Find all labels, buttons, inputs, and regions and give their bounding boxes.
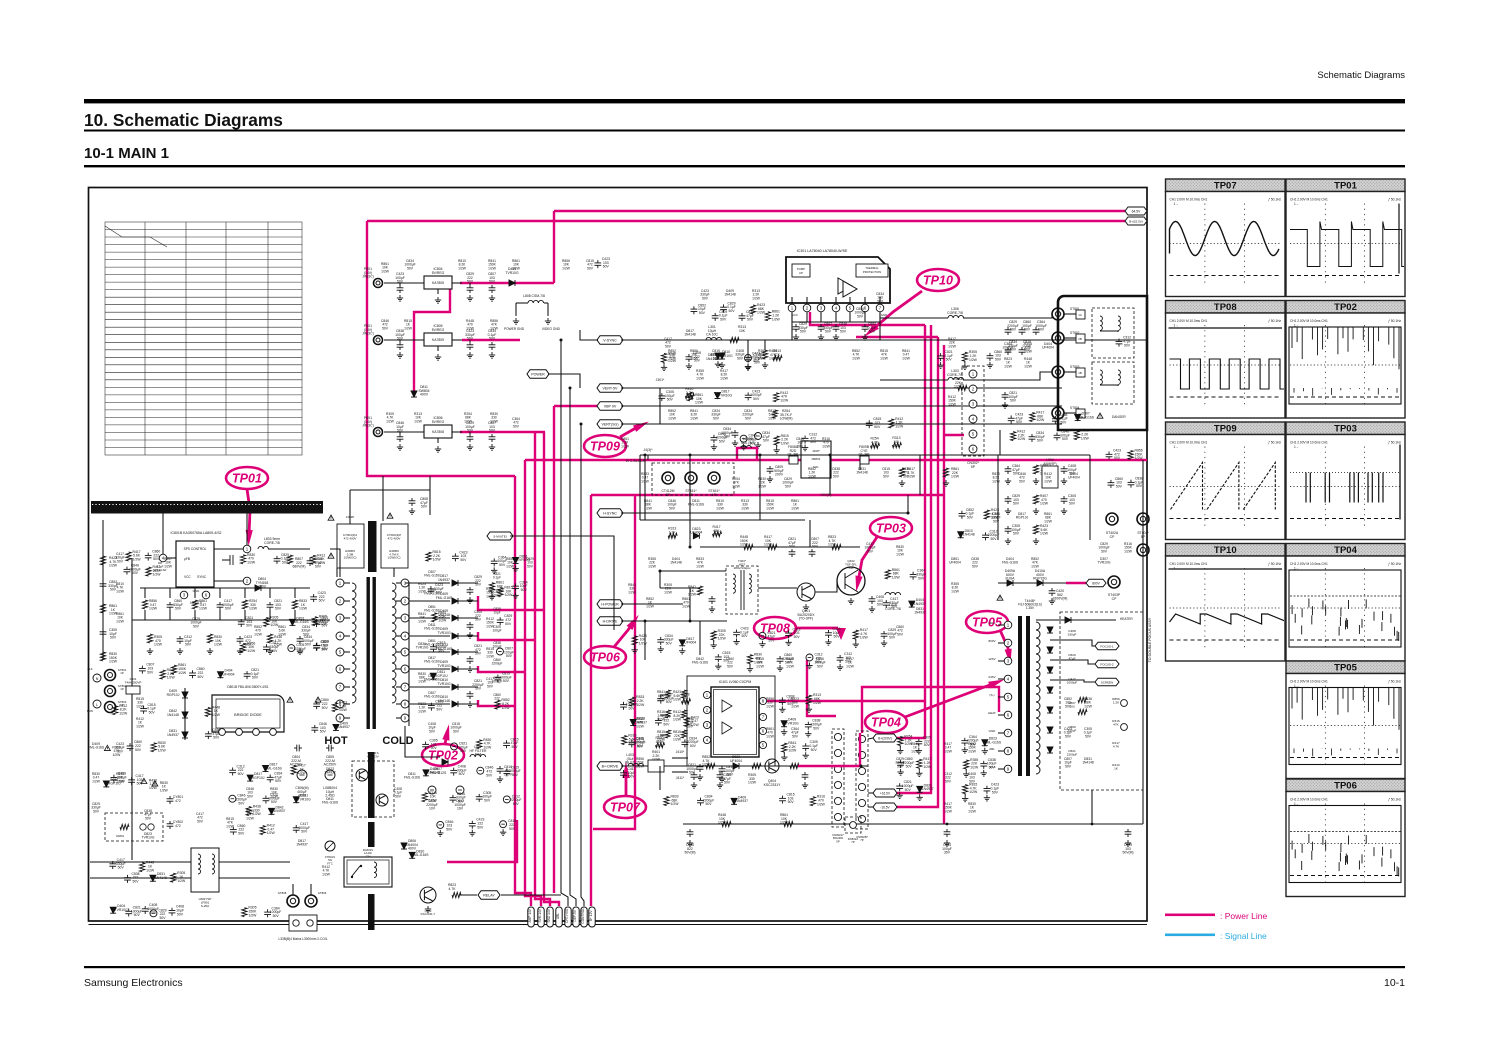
svg-text:1/2W: 1/2W xyxy=(648,564,657,568)
label xyxy=(914,598,926,606)
resistor part xyxy=(332,703,337,712)
wire drain xyxy=(246,510,248,545)
ground xyxy=(759,641,765,647)
label xyxy=(1008,340,1018,352)
svg-text:1/2W: 1/2W xyxy=(690,356,699,360)
label xyxy=(421,909,436,916)
label xyxy=(466,272,474,284)
svg-text:TP09: TP09 xyxy=(1214,424,1237,435)
resistor part xyxy=(885,570,890,579)
reference label xyxy=(1098,542,1109,553)
T801 primary pin 1 xyxy=(336,579,344,587)
label xyxy=(339,701,348,713)
svg-text:1/2W: 1/2W xyxy=(846,664,855,668)
label xyxy=(438,574,450,582)
reference label xyxy=(968,742,977,753)
label xyxy=(887,628,897,640)
svg-text:50V: 50V xyxy=(185,643,192,647)
node H-DRIVE xyxy=(597,617,623,626)
svg-text:1N4148: 1N4148 xyxy=(963,533,975,537)
capacitor part xyxy=(263,796,270,804)
junction xyxy=(829,454,832,457)
svg-text:50V: 50V xyxy=(669,506,676,510)
capacitor input filter xyxy=(397,434,404,442)
reference label xyxy=(758,477,767,488)
svg-text:1/2W: 1/2W xyxy=(664,590,673,594)
svg-text:50V: 50V xyxy=(745,416,752,420)
CN802A pin xyxy=(834,733,841,740)
label xyxy=(406,839,418,851)
svg-text:50V: 50V xyxy=(713,416,720,420)
svg-text:50V: 50V xyxy=(889,636,896,640)
wire secondary out xyxy=(458,686,478,688)
svg-text:D801B FBU-806 D800Y-4/S1: D801B FBU-806 D800Y-4/S1 xyxy=(227,685,269,689)
wire xyxy=(663,362,665,364)
resistor part xyxy=(685,394,694,399)
label C-BLOCK xyxy=(626,459,646,463)
svg-text:103: 103 xyxy=(1069,705,1074,709)
ground xyxy=(963,771,969,777)
svg-text:FOCUS-1: FOCUS-1 xyxy=(1100,644,1113,648)
label xyxy=(636,695,645,707)
block thermal protection xyxy=(856,264,888,277)
svg-text:50V: 50V xyxy=(833,474,840,478)
capacitor snubber row2 xyxy=(297,636,304,644)
svg-text:2200µF: 2200µF xyxy=(1067,753,1078,757)
svg-text:16V: 16V xyxy=(457,807,464,811)
diode part xyxy=(423,770,429,776)
svg-text:1/2W: 1/2W xyxy=(791,506,800,510)
power trunk 9 +16.5V xyxy=(897,325,931,793)
svg-text:50V: 50V xyxy=(713,356,720,360)
svg-text:1/2W: 1/2W xyxy=(880,356,889,360)
svg-text:1N4148: 1N4148 xyxy=(724,293,736,297)
ground xyxy=(984,795,990,801)
label xyxy=(740,627,749,639)
capacitor part xyxy=(733,630,740,638)
label focus assy xyxy=(1148,617,1152,662)
label xyxy=(746,310,754,322)
label flyback part xyxy=(1067,677,1078,685)
svg-text:B+-DRIVE: B+-DRIVE xyxy=(602,764,619,768)
reference label xyxy=(684,329,696,337)
svg-text:1P: 1P xyxy=(120,687,124,691)
wire flyback pin xyxy=(998,624,1004,626)
label xyxy=(727,301,736,313)
warning mark xyxy=(141,778,147,783)
label xyxy=(256,577,269,589)
label xyxy=(488,329,497,341)
svg-text:DEF-5V: DEF-5V xyxy=(573,909,577,921)
reference label xyxy=(458,259,467,270)
reference label xyxy=(948,395,957,406)
svg-text:1/2W: 1/2W xyxy=(136,724,145,728)
svg-text:1/2W: 1/2W xyxy=(652,758,661,762)
ground xyxy=(467,295,473,301)
junction xyxy=(1091,823,1094,826)
label xyxy=(270,616,279,628)
svg-text:ƒ 50.1Hz: ƒ 50.1Hz xyxy=(1388,680,1401,684)
svg-text:50V: 50V xyxy=(1136,484,1143,488)
wire reg output xyxy=(452,339,462,341)
svg-text:50V: 50V xyxy=(275,607,282,611)
warning mark xyxy=(1097,413,1103,418)
svg-text:1/2W(GC): 1/2W(GC) xyxy=(387,556,400,560)
power wire secondary out 1 xyxy=(478,596,544,610)
junction xyxy=(569,387,572,390)
schematic border frame xyxy=(89,188,1148,925)
enclosure varistor xyxy=(105,813,163,841)
inductor L306 xyxy=(948,315,964,318)
svg-text:50V: 50V xyxy=(489,280,496,284)
warning mark xyxy=(387,513,393,518)
label xyxy=(828,535,837,547)
label xyxy=(430,739,438,751)
inductor L809B xyxy=(741,445,751,448)
capacitor yoke xyxy=(1019,347,1026,355)
reference label xyxy=(711,409,720,420)
wire flyback pin xyxy=(998,642,1004,644)
wire xyxy=(399,340,401,342)
diode part xyxy=(150,875,156,881)
resistor part xyxy=(964,760,969,769)
reference label xyxy=(254,625,263,636)
diode part xyxy=(731,798,737,804)
label HOT xyxy=(324,735,348,747)
svg-text:1/2W: 1/2W xyxy=(109,564,118,568)
wire pin xyxy=(864,297,866,304)
label xyxy=(146,663,154,675)
svg-text:50V: 50V xyxy=(487,684,494,688)
svg-text:KSC2331-Y: KSC2331-Y xyxy=(421,912,436,916)
amplifier triangle IC301 xyxy=(838,278,857,297)
resistor array part xyxy=(1033,495,1038,504)
wire VERT(SG) bus xyxy=(621,423,1062,425)
CRT block terminal 3 xyxy=(708,472,720,484)
reference label xyxy=(1024,357,1033,368)
svg-text:ƒ 50.1Hz: ƒ 50.1Hz xyxy=(1388,198,1401,202)
reference label xyxy=(876,292,884,303)
test point TP01 xyxy=(226,467,268,489)
resistor part xyxy=(810,797,815,806)
label xyxy=(688,585,697,597)
heading rule xyxy=(84,130,1405,132)
label xyxy=(318,591,326,603)
wire xyxy=(713,640,715,642)
label xyxy=(656,378,665,382)
T801 primary pin 9 xyxy=(336,714,344,722)
reference label xyxy=(136,717,145,728)
label xyxy=(118,668,127,675)
power wire secondary out 3 xyxy=(478,666,525,672)
T801 secondary winding xyxy=(392,583,396,703)
choke core bar xyxy=(368,521,377,572)
svg-text:50V: 50V xyxy=(897,764,904,768)
svg-text:CA 10C: CA 10C xyxy=(706,333,718,337)
resistor R421 xyxy=(697,586,702,595)
wire signal trunk 1 xyxy=(561,340,568,906)
ground xyxy=(469,830,475,836)
svg-text:50V: 50V xyxy=(891,605,898,609)
wire cluster bus xyxy=(998,454,1090,456)
svg-text:FML-G16S: FML-G16S xyxy=(404,776,421,780)
svg-text:50V: 50V xyxy=(813,726,820,730)
reference label xyxy=(562,259,571,270)
svg-text:MJ4: MJ4 xyxy=(475,753,482,757)
svg-text:50V: 50V xyxy=(857,314,864,318)
junction xyxy=(946,823,949,826)
wire flyback pin xyxy=(998,750,1004,752)
wire pill feed xyxy=(580,330,598,340)
flyback rectifier diode xyxy=(1047,667,1053,673)
wire xyxy=(749,664,751,666)
ground xyxy=(899,480,905,486)
svg-text:1/2W: 1/2W xyxy=(741,506,750,510)
page header text xyxy=(1317,70,1405,81)
svg-text:10V: 10V xyxy=(429,807,436,811)
resistor part xyxy=(962,352,967,361)
diode D806 xyxy=(401,843,407,849)
wire xyxy=(515,303,517,316)
ground xyxy=(467,444,473,450)
label flyback resistor xyxy=(1112,763,1120,771)
svg-text:12SV: 12SV xyxy=(988,657,995,661)
label xyxy=(245,616,253,628)
wire secondary row xyxy=(409,703,450,705)
svg-text:J409*: J409* xyxy=(812,449,821,453)
label xyxy=(214,635,223,647)
label xyxy=(738,325,746,333)
label xyxy=(133,550,142,562)
label xyxy=(970,758,979,770)
svg-text:50V: 50V xyxy=(877,603,884,607)
label xyxy=(670,795,679,807)
diode D409A xyxy=(1007,580,1013,586)
inductor L301 xyxy=(706,337,722,340)
pin block 2 xyxy=(1076,334,1085,343)
capacitor part xyxy=(124,875,131,883)
capacitor part xyxy=(681,739,688,747)
bridge pin xyxy=(236,729,243,736)
bridge rectifier D801 xyxy=(212,695,284,732)
svg-text:1/2W: 1/2W xyxy=(911,749,920,753)
svg-text:IC401 LV060 C0CPM: IC401 LV060 C0CPM xyxy=(719,680,752,684)
test point TP03 xyxy=(870,517,912,539)
label xyxy=(437,627,451,635)
wire T801 secondary lead xyxy=(396,686,401,688)
svg-text:TP07: TP07 xyxy=(610,800,641,814)
label xyxy=(362,324,374,336)
reference label xyxy=(301,625,310,636)
svg-text:800V: 800V xyxy=(988,639,995,643)
node FOCUS-1 xyxy=(1095,642,1119,650)
warning mark xyxy=(997,595,1003,600)
capacitor part xyxy=(124,567,131,575)
svg-text:1/2W: 1/2W xyxy=(146,868,155,872)
transistor Q802 relay driver xyxy=(420,887,436,903)
svg-text:1/2W: 1/2W xyxy=(1017,437,1026,441)
reference label xyxy=(394,787,403,798)
svg-text:1/2W: 1/2W xyxy=(502,706,511,710)
svg-text:1/2W: 1/2W xyxy=(414,419,423,423)
label xyxy=(664,693,674,705)
svg-text:1/2W: 1/2W xyxy=(970,766,979,770)
capacitor part xyxy=(657,696,664,704)
svg-text:1/2W: 1/2W xyxy=(636,724,645,728)
ground xyxy=(1005,508,1011,514)
svg-text:4.7K: 4.7K xyxy=(1113,745,1120,749)
wire choke out xyxy=(336,568,338,577)
label xyxy=(222,669,234,677)
svg-text:50V: 50V xyxy=(246,624,253,628)
svg-text:1/2W: 1/2W xyxy=(433,558,442,562)
ground xyxy=(691,782,697,788)
label xyxy=(432,267,445,275)
label xyxy=(438,609,450,617)
IC801 pin 4 4 xyxy=(159,554,167,562)
label xyxy=(722,651,730,663)
label xyxy=(433,550,442,562)
svg-text:N: N xyxy=(96,677,99,681)
svg-text:1/2W: 1/2W xyxy=(764,543,773,547)
capacitor part xyxy=(779,796,786,804)
wire center drop 3 xyxy=(759,455,761,520)
svg-text:AC250V: AC250V xyxy=(324,763,337,767)
capacitor secondary filter xyxy=(467,587,474,595)
label xyxy=(719,350,733,358)
svg-text:1N4937: 1N4937 xyxy=(338,725,350,729)
capacitor part xyxy=(594,260,601,268)
reference label xyxy=(968,802,977,813)
resistor part xyxy=(241,643,246,652)
capacitor part xyxy=(230,827,237,835)
label xyxy=(362,416,374,428)
flyback transformer core xyxy=(1018,616,1030,776)
label xyxy=(673,730,682,742)
wire signal trunk 3 xyxy=(581,424,584,906)
test point arrow TP07 xyxy=(622,762,629,795)
wire cluster right xyxy=(1089,455,1091,540)
ground xyxy=(1005,538,1011,544)
capacitor output filter 2 xyxy=(489,285,496,293)
svg-text:472: 472 xyxy=(175,799,181,803)
capacitor part xyxy=(491,558,498,566)
capacitor part xyxy=(720,304,727,312)
resistor part xyxy=(260,826,265,835)
capacitor part xyxy=(244,671,251,679)
ground xyxy=(1002,402,1008,408)
svg-text:50V: 50V xyxy=(499,563,506,567)
label secondary cap xyxy=(492,658,503,666)
label xyxy=(754,653,763,665)
ground xyxy=(1033,508,1039,514)
svg-text:50V: 50V xyxy=(699,311,706,315)
label xyxy=(436,643,453,651)
T801 primary pin 5 xyxy=(336,648,344,656)
svg-text:1/2W: 1/2W xyxy=(923,765,932,769)
svg-text:50V: 50V xyxy=(747,318,754,322)
label ST801 xyxy=(1070,307,1080,311)
diode secondary rectifier xyxy=(452,684,458,690)
focus pin xyxy=(1121,700,1128,707)
reference label xyxy=(88,742,105,750)
svg-text:1/2W: 1/2W xyxy=(483,745,492,749)
label xyxy=(196,667,204,679)
label flyback part xyxy=(1068,629,1077,637)
electrolytic C816 xyxy=(428,786,436,794)
resistor part xyxy=(160,670,165,679)
IC801 pin 3 3 xyxy=(180,591,188,599)
svg-text:50V: 50V xyxy=(741,634,748,638)
wire secondary out xyxy=(458,651,478,653)
footer left text xyxy=(84,977,183,989)
wire H-SYNC bus xyxy=(621,512,908,514)
wire pin7 drop xyxy=(879,312,881,340)
svg-text:50V: 50V xyxy=(874,425,881,429)
power trunk 3 xyxy=(535,432,550,906)
svg-text:1N4148: 1N4148 xyxy=(670,561,682,565)
svg-text:50V: 50V xyxy=(845,660,852,664)
diode part xyxy=(630,719,636,725)
svg-text:TVR10G: TVR10G xyxy=(298,798,312,802)
svg-text:CH1 2.00V M 10.0ms CH1: CH1 2.00V M 10.0ms CH1 xyxy=(1170,441,1208,445)
capacitor C420 xyxy=(1049,588,1056,596)
capacitor part xyxy=(620,702,627,710)
label xyxy=(1022,320,1032,332)
capacitor part xyxy=(980,761,987,769)
svg-text:RGP10J: RGP10J xyxy=(252,776,265,780)
svg-text:1/2W: 1/2W xyxy=(92,779,101,783)
capacitor C808 xyxy=(307,558,314,566)
svg-text:1/2W: 1/2W xyxy=(247,649,256,653)
label xyxy=(154,635,163,647)
diode input xyxy=(182,712,188,718)
wire xyxy=(918,768,920,770)
label xyxy=(987,758,997,770)
label xyxy=(504,614,512,626)
capacitor vertical stage xyxy=(818,324,825,332)
svg-text:1/2W: 1/2W xyxy=(752,296,761,300)
label xyxy=(706,353,718,361)
resistor part xyxy=(495,700,500,709)
resistor IC401 input xyxy=(681,710,686,718)
diode part xyxy=(781,721,787,727)
wire snubber drop xyxy=(144,588,146,598)
flyback pin 2 xyxy=(1004,639,1012,647)
label xyxy=(1081,429,1090,441)
svg-text:50V: 50V xyxy=(788,800,795,804)
wire xyxy=(399,432,401,434)
label xyxy=(942,843,952,855)
reference label xyxy=(144,809,152,820)
label xyxy=(1135,449,1144,461)
svg-text:1N4148: 1N4148 xyxy=(428,771,440,775)
resistor part xyxy=(630,697,635,706)
drive transformer primary xyxy=(733,574,735,593)
power wire horizontal A xyxy=(525,459,1147,461)
capacitor C430 xyxy=(869,596,876,604)
svg-text:1N4937: 1N4937 xyxy=(736,799,748,803)
warning mark xyxy=(328,515,334,520)
svg-text:50V: 50V xyxy=(1101,549,1108,553)
svg-text:50V: 50V xyxy=(1065,734,1072,738)
svg-text:VERT(SG): VERT(SG) xyxy=(601,422,618,426)
svg-text:T4AH250VP: T4AH250VP xyxy=(125,680,142,684)
ground xyxy=(896,792,902,798)
label flyback part xyxy=(1068,653,1076,661)
svg-text:50V: 50V xyxy=(1013,502,1020,506)
label xyxy=(947,369,963,377)
